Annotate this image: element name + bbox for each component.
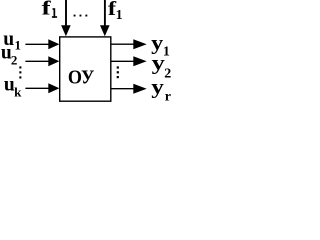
svg-text:1: 1: [15, 38, 22, 53]
svg-text:y: y: [152, 54, 165, 75]
svg-text:y: y: [151, 33, 163, 54]
wire uk: input arrow: [25, 87, 49, 89]
svg-text:k: k: [14, 85, 22, 100]
vertical dots between u2 and uk: [19, 66, 21, 68]
svg-text:1: 1: [116, 8, 123, 23]
svg-text:y: y: [151, 78, 164, 99]
wire u1: input arrow: [25, 43, 49, 45]
arrowhead uk: [48, 83, 59, 93]
arrowhead y1: [133, 39, 146, 49]
wire y1: output arrow: [111, 43, 136, 45]
arrowhead y2: [133, 56, 146, 66]
svg-text:r: r: [165, 90, 171, 105]
svg-text:2: 2: [11, 52, 18, 67]
arrowhead yr: [133, 84, 146, 94]
block U1: control object box (ОУ): [60, 37, 111, 101]
wire f_1: vertical disturbance line: [104, 0, 106, 27]
wire f_l: vertical disturbance line: [65, 0, 67, 27]
wire u2: input arrow: [25, 60, 49, 62]
arrowhead f_l into box top: [61, 25, 71, 36]
ellipsis dots between f_l and f_1: [74, 15, 76, 17]
arrowhead f_1 into box top: [100, 25, 110, 36]
arrowhead u2: [48, 56, 59, 66]
vertical dots between y2 and yr: [117, 66, 119, 68]
wire y2: output arrow: [111, 60, 136, 62]
arrowhead u1: [48, 39, 59, 49]
svg-text:2: 2: [164, 67, 171, 82]
wire yr: output arrow: [111, 88, 136, 90]
svg-text:ОУ: ОУ: [68, 67, 95, 89]
svg-text:f: f: [42, 0, 52, 20]
